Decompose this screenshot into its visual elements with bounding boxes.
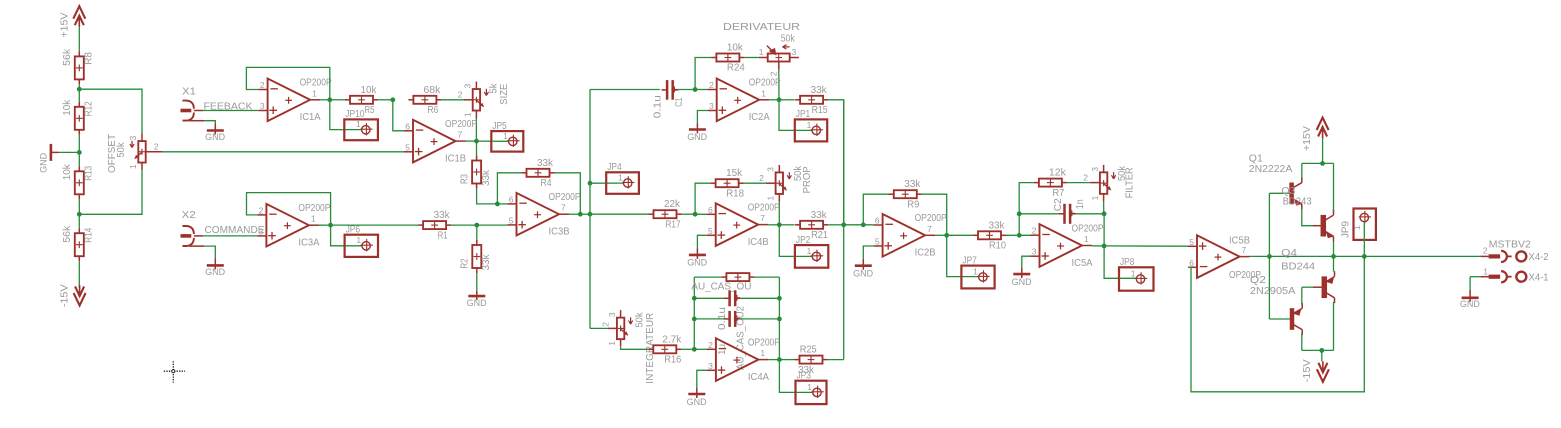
svg-text:R14: R14 (84, 227, 95, 242)
wire IC5B pin6 feedback (1188, 256, 1364, 391)
svg-text:JP2: JP2 (796, 235, 811, 246)
svg-text:2: 2 (759, 173, 764, 183)
connector X2 (181, 210, 204, 246)
svg-text:C2: C2 (1053, 198, 1064, 211)
wire node to IC4B pin6 (695, 213, 707, 215)
connector X1 (181, 87, 204, 121)
junction IC2B output (944, 233, 949, 238)
svg-text:3: 3 (766, 167, 776, 172)
svg-text:1: 1 (463, 112, 473, 117)
wire capB branch right (741, 318, 780, 320)
svg-text:1n: 1n (1075, 199, 1086, 209)
svg-text:SIZE: SIZE (499, 83, 510, 104)
op-amp IC4A (707, 338, 780, 383)
svg-text:2: 2 (154, 141, 159, 151)
svg-text:IC2A: IC2A (749, 112, 770, 123)
capacitor 0.1u (lower) (717, 306, 747, 370)
svg-text:2N2222A: 2N2222A (1249, 164, 1293, 175)
svg-text:7: 7 (927, 224, 932, 234)
resistor R12 10k (62, 99, 94, 135)
wire feedback right vertical (778, 277, 780, 360)
svg-text:R16: R16 (664, 355, 681, 366)
wire IC5A out to IC5B pin5 (1104, 245, 1188, 247)
svg-text:3: 3 (1090, 167, 1100, 172)
junction IC4B output (777, 222, 782, 227)
junction IC5A pin2 node (1017, 233, 1022, 238)
wire R4 to IC3B out node (555, 173, 581, 214)
wire bus to IC2B pin6 (844, 224, 874, 226)
junction IC3B out / R4 (578, 212, 583, 217)
junction GND node (77, 150, 82, 155)
wire R18 to PROP (744, 182, 776, 184)
svg-text:R5: R5 (365, 105, 375, 116)
svg-text:OP200P: OP200P (915, 213, 947, 224)
wire node up to R18 (695, 183, 711, 214)
wire Q2 base (1269, 318, 1289, 320)
svg-text:R8: R8 (84, 51, 95, 64)
wire R3 to pin6 node (477, 189, 498, 204)
wire IC2A out to JP1 (779, 100, 812, 131)
wire IC1A out to R5 (330, 99, 345, 101)
svg-text:OP200P: OP200P (749, 78, 781, 89)
wire GND to X4-1 (1470, 276, 1481, 278)
svg-text:2: 2 (458, 89, 463, 99)
wire R12 to GND node (78, 135, 80, 153)
wire bus to INTEGRATEUR (590, 327, 617, 329)
op-amp IC2A (708, 78, 781, 123)
svg-text:6: 6 (405, 121, 410, 131)
wire Q3 emitter to output (1333, 242, 1335, 257)
jumper JP5 (491, 121, 523, 152)
wire IC1B out to JP5 (477, 140, 509, 142)
potentiometer INTEGRATEUR 50k (600, 310, 656, 384)
svg-text:IC1A: IC1A (300, 112, 321, 123)
svg-text:-15V: -15V (59, 284, 70, 307)
wire main bus vertical (589, 90, 591, 329)
resistor R2 33k (460, 240, 492, 273)
svg-text:2: 2 (1483, 245, 1488, 255)
svg-text:JP3: JP3 (797, 371, 812, 382)
svg-text:IC5B: IC5B (1229, 236, 1250, 247)
wire capB branch left (694, 318, 724, 320)
transistor Q4 BD244 (1281, 248, 1334, 303)
svg-text:3: 3 (792, 47, 797, 57)
svg-text:1: 1 (503, 131, 508, 141)
svg-text:50k: 50k (116, 142, 127, 158)
wire R14 to -15V (78, 261, 80, 288)
svg-text:GND: GND (205, 132, 225, 143)
potentiometer SIZE 5k (458, 82, 510, 119)
svg-text:1: 1 (766, 196, 776, 201)
svg-text:6: 6 (509, 194, 514, 204)
junction C1/R24/pin2 (693, 87, 698, 92)
resistor R16 2.7k (648, 334, 682, 365)
junction base bus (1267, 254, 1272, 259)
wire IC3A out to R1 (331, 224, 419, 226)
wire R10 to IC5A pin2 (1006, 234, 1031, 236)
wire feedback left vertical (693, 277, 695, 349)
capacitor 1u (AU_CAS_OU2 upper) (717, 290, 741, 330)
svg-text:OP200P: OP200P (445, 119, 477, 130)
wire +15V rail (1302, 162, 1334, 164)
svg-text:JP9: JP9 (1340, 221, 1351, 238)
junction +15V rail (1320, 161, 1325, 166)
label COMMANDE (205, 225, 265, 236)
svg-text:R24: R24 (727, 63, 745, 74)
svg-text:3: 3 (260, 101, 265, 111)
svg-text:IC2B: IC2B (915, 248, 936, 259)
wire capA branch left (694, 297, 724, 299)
svg-text:5: 5 (509, 215, 514, 225)
wire INTEGRATEUR pin1 to R16 (621, 347, 649, 349)
wire R6 to SIZE pot (441, 99, 472, 101)
junction IC5A output (1102, 244, 1107, 249)
svg-text:OP200P: OP200P (1072, 223, 1104, 234)
svg-text:2: 2 (1032, 226, 1037, 236)
svg-text:GND: GND (687, 258, 707, 269)
wire node up to R7 (1019, 183, 1034, 214)
label MSTBV2 (1489, 239, 1531, 250)
ground GND (IC2A) (687, 124, 707, 144)
transistor Q3 BD243 (1281, 186, 1333, 242)
svg-text:1: 1 (761, 88, 766, 98)
svg-text:JP10: JP10 (345, 109, 365, 120)
label FEEBACK (204, 102, 253, 113)
wire OFFSET pin2 to IC1B pin5 (146, 151, 404, 153)
svg-text:R9: R9 (907, 199, 919, 210)
svg-text:1: 1 (311, 214, 316, 224)
svg-text:OP200P: OP200P (300, 78, 332, 89)
svg-text:1: 1 (807, 246, 812, 256)
wire DERIVATEUR pin2 down (778, 62, 780, 100)
svg-text:IC4A: IC4A (748, 372, 769, 383)
svg-text:7: 7 (458, 130, 463, 140)
svg-text:R6: R6 (427, 105, 438, 116)
wire R1 to pin5 node (451, 224, 477, 226)
svg-text:R2: R2 (460, 258, 471, 268)
wire IC1A feedback loop (246, 67, 329, 99)
ground GND (IC4A) (687, 387, 707, 408)
svg-text:OP200P: OP200P (549, 192, 581, 203)
svg-text:0.1u: 0.1u (653, 95, 664, 118)
svg-text:R10: R10 (989, 241, 1006, 252)
wire PROP pin1 to IC4B out (778, 202, 780, 225)
wire IC4A out to JP3 (779, 360, 813, 393)
wire to JP10 (330, 100, 362, 130)
svg-text:3: 3 (463, 84, 473, 89)
svg-text:OP200P: OP200P (748, 203, 780, 214)
op-amp IC4B (707, 203, 780, 248)
wire X2 sleeve to GND (189, 246, 215, 258)
svg-text:GND: GND (1012, 277, 1032, 288)
svg-text:56k: 56k (62, 225, 73, 243)
transistor Q1 2N2222A (1249, 153, 1302, 209)
svg-text:+15V: +15V (1302, 126, 1313, 151)
wire Q1 collector to rail (1301, 163, 1303, 177)
svg-text:12k: 12k (1049, 168, 1067, 179)
svg-text:3: 3 (607, 312, 617, 317)
capacitor C2 1n (1053, 198, 1086, 224)
wire Q2 collector to -15V rail (1301, 334, 1303, 351)
ground GND (left, rotated) (38, 144, 58, 173)
wire IC1A output (320, 99, 330, 101)
svg-text:33k: 33k (811, 210, 828, 221)
wire GND node to R13 (78, 152, 80, 166)
svg-text:5: 5 (875, 237, 880, 247)
svg-text:56k: 56k (62, 48, 73, 66)
wire IC2A pin3 to GND (697, 111, 707, 124)
resistor R17 22k (649, 199, 682, 230)
wire node to IC4A pin2 (694, 348, 707, 350)
junction right bus (841, 222, 846, 227)
jumper JP8 (1119, 257, 1154, 291)
wire IC5A output (1092, 245, 1104, 247)
wire IC5A pin3 to GND (1022, 256, 1031, 267)
svg-text:7: 7 (561, 203, 566, 213)
svg-text:GND: GND (205, 267, 225, 278)
svg-text:IC1B: IC1B (445, 153, 466, 164)
junction capA left (692, 296, 697, 301)
op-amp IC3A (257, 203, 330, 248)
potentiometer OFFSET 50k (107, 134, 159, 173)
svg-text:IC3A: IC3A (298, 238, 319, 249)
svg-text:33k: 33k (537, 158, 554, 169)
wire IC2B pin5 to GND (863, 246, 873, 259)
svg-text:BD244: BD244 (1281, 262, 1315, 273)
resistor R6 68k (408, 85, 441, 116)
junction IC2B pin6 node (861, 222, 866, 227)
node cursor crosshair (164, 361, 185, 382)
wire GND bar to node (59, 151, 80, 153)
resistor R3 33k (459, 156, 491, 189)
junction capB right (777, 317, 782, 322)
svg-text:AU_CAS_OU: AU_CAS_OU (691, 282, 751, 293)
op-amp IC5A (1031, 223, 1104, 268)
svg-text:6: 6 (708, 205, 713, 215)
wire IC4A out to R25 (779, 359, 794, 361)
wire SIZE pin1 to IC1B out node (475, 118, 477, 141)
svg-text:1: 1 (1131, 268, 1136, 278)
svg-text:GND: GND (687, 132, 707, 143)
wire R7 to FILTER (1067, 182, 1100, 184)
svg-text:R18: R18 (726, 188, 744, 199)
wire X4-1 GND drop (1469, 277, 1471, 290)
ground GND (X1) (205, 124, 225, 144)
wire IC1B out to R3 (476, 141, 478, 155)
wire IC1B output (466, 140, 477, 142)
svg-text:2N2905A: 2N2905A (1250, 286, 1296, 297)
wire X1 sleeve to GND (189, 121, 215, 124)
power -15V (left) (59, 284, 85, 307)
svg-text:2: 2 (260, 80, 265, 90)
op-amp IC5B (mirrored) (1188, 235, 1261, 281)
svg-text:MSTBV2: MSTBV2 (1489, 239, 1531, 250)
svg-text:R13: R13 (84, 165, 95, 180)
junction C2 right / FILTER pin1 (1102, 211, 1107, 216)
svg-text:5: 5 (708, 226, 713, 236)
wire node to IC1B pin6 (393, 100, 404, 131)
wire Q4 emitter to output node (1333, 256, 1335, 271)
svg-text:GND: GND (853, 268, 873, 279)
jumper JP2 (795, 235, 828, 268)
resistor R21 33k (795, 210, 828, 241)
junction R3/R4/pin6 node (495, 202, 500, 207)
wire node up to R24 (695, 58, 711, 90)
svg-text:10k: 10k (62, 163, 73, 180)
svg-text:7: 7 (760, 213, 765, 223)
resistor R24 10k (711, 43, 745, 74)
op-amp IC3B (508, 192, 581, 237)
wire node B to R14 (78, 214, 80, 228)
svg-text:FILTER: FILTER (1125, 167, 1136, 198)
junction IC2A output (777, 97, 782, 102)
wire X1 to IC1A pin3 (203, 110, 259, 112)
op-amp IC1B (404, 119, 477, 164)
power +15V (right) (1302, 118, 1328, 152)
junction IC1A output (327, 97, 332, 102)
svg-text:3: 3 (128, 136, 138, 141)
svg-text:JP7: JP7 (962, 255, 977, 266)
resistor R14 56k (62, 225, 94, 262)
svg-text:10k: 10k (361, 85, 378, 96)
junction -15V rail (1319, 348, 1324, 353)
potentiometer DERIVATEUR 50k (723, 22, 800, 76)
wire +15V to R8 (78, 27, 80, 52)
op-amp IC1A (259, 78, 332, 123)
svg-text:1: 1 (607, 341, 617, 346)
svg-text:2: 2 (709, 80, 714, 90)
jumper JP9 (1340, 209, 1376, 240)
wire resistor to right vertical (754, 276, 779, 278)
wire node A to OFFSET pin3 (79, 89, 142, 133)
svg-text:1u: 1u (717, 344, 728, 355)
svg-text:15k: 15k (726, 168, 743, 179)
svg-text:JP5: JP5 (492, 121, 507, 132)
wire R25 to right bus (828, 359, 844, 361)
svg-text:Q2: Q2 (1250, 275, 1267, 286)
svg-text:R21: R21 (811, 230, 828, 241)
wire IC2B out to JP7 (947, 235, 979, 276)
junction bus/JP4 (588, 181, 593, 186)
svg-text:50k: 50k (635, 312, 646, 328)
op-amp IC2B (874, 213, 947, 258)
power -15V (right) (1302, 359, 1329, 382)
wire IC3B output (569, 213, 580, 215)
junction node A (77, 87, 82, 92)
power +15V (left) (59, 6, 85, 37)
svg-text:1: 1 (356, 235, 361, 245)
wire node A to R12 (78, 89, 80, 102)
svg-text:6: 6 (1189, 258, 1194, 268)
svg-text:R12: R12 (84, 101, 95, 116)
wire Q3 collector to rail (1333, 163, 1335, 211)
resistor R13 10k (62, 163, 94, 199)
svg-text:GND: GND (1460, 299, 1480, 310)
potentiometer FILTER 50k (1083, 165, 1135, 202)
wire R16 to IC4A node (681, 348, 694, 350)
wire R2 to GND (476, 273, 478, 291)
wire OFFSET pin1 to node B (79, 170, 142, 215)
resistor R10 33k (973, 220, 1006, 251)
connector X4-1 (1481, 266, 1549, 283)
svg-text:GND: GND (38, 153, 49, 173)
wire IC4B out to JP2 (779, 225, 812, 257)
junction IC1B output (474, 139, 479, 144)
wire right bus vertical (843, 100, 845, 360)
svg-text:5: 5 (1189, 237, 1194, 247)
resistor R18 15k (711, 168, 745, 199)
wire IC2B output (935, 234, 947, 236)
wire Q4 base (1302, 286, 1322, 288)
wire C2 left lead (1019, 213, 1059, 215)
wire IC5B output row (1250, 255, 1481, 257)
svg-text:+15V: +15V (59, 12, 70, 37)
jumper JP10 (344, 109, 378, 140)
junction JP9/feedback (1362, 254, 1367, 259)
ground GND (X2) (205, 258, 225, 278)
wire IC3A feedback loop (247, 193, 331, 226)
wire +15V to rail (1322, 138, 1324, 163)
svg-text:1: 1 (1090, 195, 1100, 200)
svg-text:Q3: Q3 (1281, 186, 1295, 197)
resistor AU_CAS_OU (691, 273, 754, 293)
svg-text:2: 2 (1083, 172, 1088, 182)
svg-text:R1: R1 (438, 230, 448, 241)
junction C2 left (1017, 211, 1022, 216)
svg-text:OP200P: OP200P (298, 203, 330, 214)
wire capA branch right (741, 297, 780, 299)
ground GND (R2) (467, 291, 487, 309)
svg-text:10k: 10k (62, 99, 73, 116)
ground GND (IC5A) (1012, 267, 1032, 288)
svg-text:2: 2 (768, 71, 778, 76)
wire IC4B output (768, 224, 779, 226)
wire node up to C2 level (1018, 214, 1020, 236)
svg-text:1: 1 (1352, 225, 1362, 230)
svg-text:1: 1 (1483, 266, 1488, 276)
wire IC2A out to R15 (779, 99, 795, 101)
ground GND (X4-1) (1460, 290, 1480, 310)
svg-text:22k: 22k (664, 199, 681, 210)
wire bus to JP4 (590, 182, 624, 184)
svg-text:GND: GND (687, 397, 707, 408)
jumper JP1 (795, 109, 827, 141)
wire FILTER node to IC5A out (1103, 214, 1105, 246)
wire Q2 emitter to Q4 base (1301, 287, 1303, 304)
potentiometer PROP 50k (759, 165, 813, 202)
wire base bus vertical (1268, 193, 1270, 319)
resistor R9 33k (889, 179, 922, 210)
svg-text:Q1: Q1 (1249, 153, 1263, 164)
svg-text:JP6: JP6 (346, 225, 361, 236)
wire IC3B out to bus (580, 213, 590, 215)
jumper JP6 (345, 225, 378, 257)
svg-text:X2: X2 (182, 210, 196, 221)
resistor R7 12k (1034, 168, 1067, 199)
wire R13 to node B (78, 199, 80, 214)
wire top branch to resistor (694, 276, 721, 278)
svg-text:2: 2 (259, 205, 264, 215)
svg-text:1: 1 (618, 172, 623, 182)
wire IC2B out to R10 (947, 234, 974, 236)
junction R1/R2 node (474, 223, 479, 228)
svg-text:1: 1 (128, 164, 138, 169)
wire R8 to node A (78, 84, 80, 89)
svg-text:X4-2: X4-2 (1529, 252, 1549, 263)
svg-text:5: 5 (405, 142, 410, 152)
svg-text:IC5A: IC5A (1072, 258, 1093, 269)
resistor R1 33k (418, 210, 451, 241)
